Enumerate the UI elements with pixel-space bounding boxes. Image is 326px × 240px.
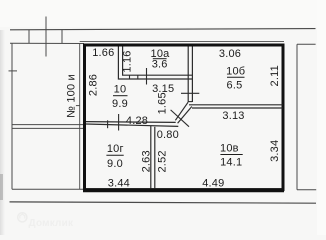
wall axis line <box>45 17 47 57</box>
svg-text:6.5: 6.5 <box>227 80 243 92</box>
right page edge <box>317 0 326 235</box>
tick on wall 10/10g b <box>118 114 120 131</box>
svg-text:№ 100 и: № 100 и <box>66 74 78 118</box>
bottom wall extra thickness <box>83 190 284 192</box>
svg-text:1.66: 1.66 <box>92 47 114 59</box>
svg-text:3.6: 3.6 <box>152 59 168 71</box>
svg-text:0.80: 0.80 <box>157 129 179 141</box>
svg-text:10в: 10в <box>220 142 239 154</box>
long top building line <box>10 29 316 30</box>
left flat wall tick <box>9 70 18 72</box>
long bottom building line <box>10 202 317 203</box>
chamfer wall outer <box>175 102 188 120</box>
wall 10a/10b inner <box>191 47 193 103</box>
left flat interior wall lower line <box>12 127 84 129</box>
right neighbour top edge <box>297 43 316 45</box>
door leaf line <box>171 110 189 127</box>
svg-text:Домклик: Домклик <box>29 218 74 229</box>
svg-text:1.16: 1.16 <box>122 50 134 72</box>
svg-text:3.13: 3.13 <box>222 110 244 122</box>
svg-text:2.63: 2.63 <box>141 150 153 172</box>
svg-text:3.06: 3.06 <box>219 48 241 60</box>
left scan edge band <box>0 30 5 235</box>
underline 10 <box>113 95 128 97</box>
apartment thin line above top wall <box>80 40 284 42</box>
partition 10g/10v left line <box>150 126 152 189</box>
svg-text:4.49: 4.49 <box>202 178 224 190</box>
top band divider 1 <box>28 30 30 44</box>
apartment inner thin line left <box>79 44 81 189</box>
apartment bold outline <box>85 45 284 190</box>
tick crossing wall 10a/10b <box>181 92 199 94</box>
room 10a left wall outer <box>118 47 192 80</box>
top strip lighter <box>0 0 326 27</box>
wall 10/10g upper line <box>86 121 176 124</box>
tick on wall 10/10g a <box>107 120 109 128</box>
svg-text:1.65: 1.65 <box>156 92 168 114</box>
svg-text:3.34: 3.34 <box>269 140 281 162</box>
svg-text:2.11: 2.11 <box>269 65 281 86</box>
underline 10v <box>220 154 242 156</box>
dimension tick 3.15 left <box>146 68 148 85</box>
left flat interior wall upper line <box>12 124 84 126</box>
watermark logo circle <box>18 213 27 222</box>
wall 10/10g lower line <box>86 124 178 126</box>
right neighbour bottom edge <box>297 189 316 191</box>
room 10a left wall inner <box>123 47 193 76</box>
10a bottom wall connector tick 1 <box>129 75 131 79</box>
svg-text:10г: 10г <box>107 143 124 155</box>
svg-text:14.1: 14.1 <box>220 156 242 168</box>
underline 10b <box>227 76 245 78</box>
underline 10g <box>106 154 123 156</box>
svg-text:3.44: 3.44 <box>108 177 130 189</box>
svg-text:2.86: 2.86 <box>87 74 99 96</box>
left edge dark smudge <box>0 174 3 200</box>
svg-text:4.28: 4.28 <box>126 115 148 127</box>
wall 10a/10b end cap <box>188 101 192 103</box>
left flat left wall <box>11 44 13 190</box>
underline 10a <box>153 58 167 60</box>
partition 10b/10v upper <box>189 104 283 106</box>
top band bottom line <box>10 42 84 44</box>
svg-text:2.52: 2.52 <box>156 150 168 172</box>
svg-text:10б: 10б <box>226 66 245 78</box>
wall 10a/10b outer <box>187 47 189 103</box>
partition 10b/10v lower <box>192 107 283 109</box>
tick on left bold wall <box>76 105 80 107</box>
svg-text:9.9: 9.9 <box>112 98 128 110</box>
chamfer wall inner <box>178 107 192 124</box>
left flat bottom line <box>12 188 84 190</box>
partition 10g/10v right line <box>154 127 156 189</box>
svg-text:10: 10 <box>114 83 127 95</box>
right neighbour left wall <box>296 44 298 189</box>
top band divider 2 <box>61 30 63 44</box>
svg-text:9.0: 9.0 <box>107 158 123 170</box>
10a bottom wall connector tick 2 <box>137 75 139 79</box>
